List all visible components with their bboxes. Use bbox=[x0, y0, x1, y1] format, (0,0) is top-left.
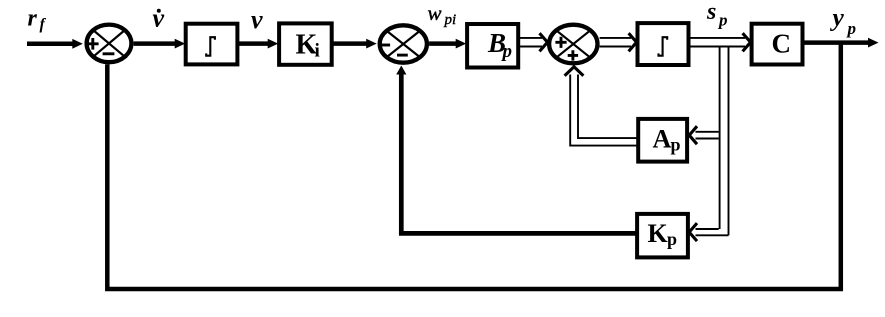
wire Bp to S3 (vector double line) bbox=[518, 33, 547, 51]
svg-text:r: r bbox=[28, 6, 38, 32]
wire S3 to INT2 (vector double line) bbox=[600, 33, 637, 51]
svg-text:v: v bbox=[153, 4, 165, 33]
svg-text:C: C bbox=[772, 29, 792, 59]
node vdot label bbox=[153, 4, 165, 33]
node r_f label bbox=[28, 6, 47, 34]
wire Ap input branch (vector double line from tap) bbox=[689, 126, 719, 144]
block C bbox=[752, 24, 803, 65]
svg-text:p: p bbox=[667, 229, 677, 249]
wire Kp input branch (vector double line from tap) bbox=[689, 223, 728, 241]
integrator block INT1 bbox=[186, 24, 238, 65]
summing junction S2 bbox=[379, 25, 427, 62]
node s_p label bbox=[706, 0, 728, 30]
wire outer feedback loop bbox=[107, 43, 841, 289]
wire INT1 to Ki bbox=[237, 39, 278, 49]
summing junction S3 bbox=[549, 25, 597, 64]
block Kp bbox=[637, 214, 688, 258]
wire Kp output to S2 bottom bbox=[396, 66, 637, 234]
wire S2 to Bp bbox=[429, 39, 466, 49]
wire Ki to S2 bbox=[332, 39, 377, 49]
svg-text:K: K bbox=[648, 219, 669, 248]
wire S1 to integrator1 bbox=[134, 39, 186, 49]
block Ap bbox=[638, 119, 687, 162]
wire C to output y_p bbox=[803, 38, 879, 48]
wire input r_f arrow bbox=[27, 39, 83, 49]
node w_pi label bbox=[428, 1, 457, 28]
integrator block INT2 bbox=[638, 23, 689, 65]
svg-text:p: p bbox=[501, 41, 513, 62]
wire vector tap down from s_p line bbox=[720, 47, 729, 236]
svg-text:A: A bbox=[653, 124, 672, 153]
svg-text:s: s bbox=[706, 0, 716, 25]
svg-text:p: p bbox=[717, 11, 728, 30]
block Bp bbox=[467, 24, 518, 68]
summing junction S1 bbox=[87, 25, 132, 63]
wire INT2 to C (vector double line) bbox=[689, 33, 751, 51]
svg-text:i: i bbox=[315, 41, 320, 62]
node y_p label bbox=[830, 3, 857, 39]
svg-text:pi: pi bbox=[444, 12, 457, 28]
svg-text:p: p bbox=[846, 19, 857, 38]
block Ki bbox=[279, 23, 332, 64]
svg-text:ν: ν bbox=[251, 5, 263, 34]
svg-text:p: p bbox=[671, 134, 681, 154]
wire Ap output to S3 (vector double line, left then up) bbox=[565, 67, 639, 146]
svg-text:y: y bbox=[830, 3, 845, 32]
svg-text:w: w bbox=[428, 1, 442, 25]
